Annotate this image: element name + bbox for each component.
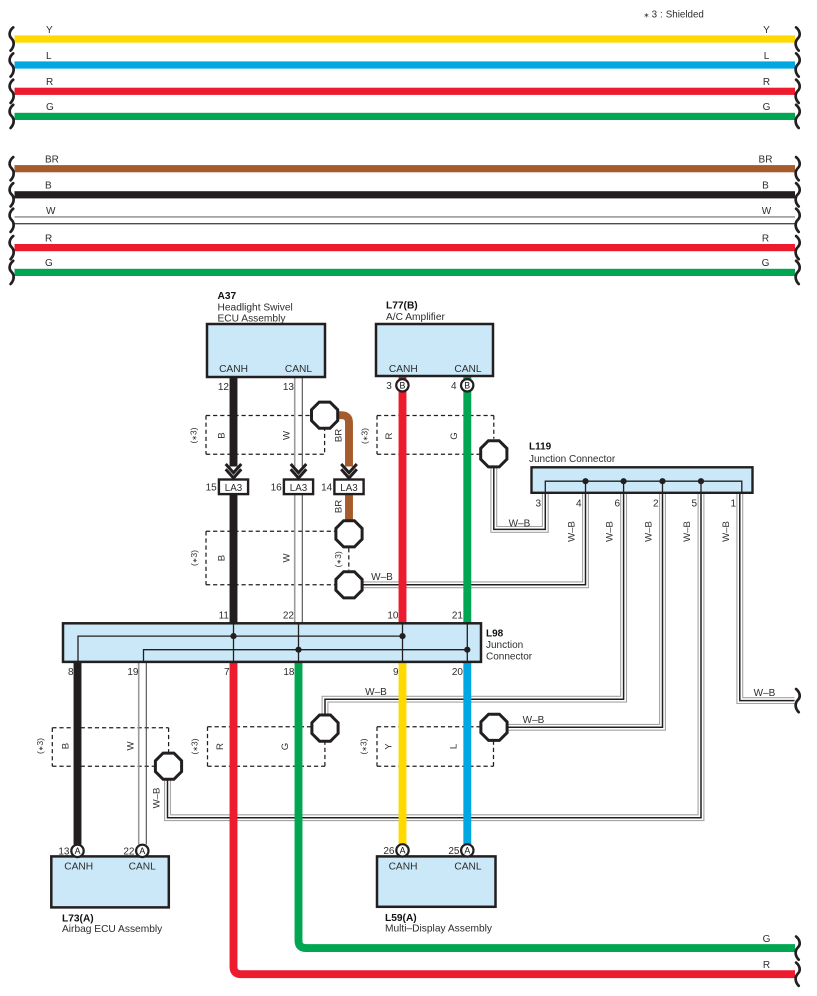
- continuation mark right of R: [796, 80, 800, 103]
- svg-text:B: B: [217, 432, 228, 438]
- svg-text:11: 11: [219, 611, 230, 622]
- svg-text:18: 18: [283, 667, 295, 678]
- svg-text:CANH: CANH: [389, 364, 418, 375]
- svg-text:W–B: W–B: [682, 521, 693, 542]
- wire G (horizontal trunk): [15, 113, 796, 120]
- svg-text:W–B: W–B: [371, 572, 393, 583]
- svg-text:A: A: [464, 846, 470, 856]
- svg-text:14: 14: [321, 483, 333, 494]
- svg-text:W–B: W–B: [605, 521, 616, 542]
- wire W-B from L119 pin 1 to right edge: [740, 493, 795, 701]
- wire R (horizontal trunk): [15, 88, 796, 95]
- continuation mark right of G: [796, 261, 800, 284]
- svg-text:L: L: [764, 51, 770, 62]
- svg-text:G: G: [46, 102, 54, 113]
- wire R from L98 pin 7 to right edge: [234, 662, 796, 974]
- svg-text:G: G: [449, 432, 460, 439]
- svg-text:L59(A): L59(A): [385, 913, 417, 924]
- svg-text:(∗3): (∗3): [360, 428, 370, 444]
- continuation mark right of R: [796, 236, 800, 259]
- svg-text:L98: L98: [486, 629, 504, 640]
- junction node L119 pin 5: [698, 478, 704, 484]
- svg-text:Multi–Display Assembly: Multi–Display Assembly: [385, 923, 493, 934]
- svg-text:R: R: [45, 233, 52, 244]
- svg-text:G: G: [762, 258, 770, 269]
- pin 4 connector circle B of L77: [461, 379, 473, 391]
- wire B from L98 pin 8 to L73 pin 13: [74, 662, 82, 845]
- wire W from A37 CANL pin 13 to joint LA3-16: [295, 377, 303, 467]
- svg-text:LA3: LA3: [340, 483, 358, 494]
- svg-text:(∗3): (∗3): [333, 551, 343, 567]
- svg-text:16: 16: [271, 483, 283, 494]
- wire W from L98 pin 19 to L73 pin 22: [139, 662, 147, 845]
- shield box labels (*3) Y L: [359, 738, 460, 754]
- svg-text:Y: Y: [384, 743, 395, 750]
- svg-text:G: G: [763, 934, 771, 945]
- continuation mark left of L: [10, 53, 14, 76]
- ECU A37 Headlight Swivel ECU Assembly: [207, 291, 325, 393]
- svg-text:∗3:Shielded: ∗3:Shielded: [644, 10, 704, 21]
- ECU L73(A) Airbag ECU Assembly: [51, 846, 169, 935]
- svg-text:R: R: [762, 233, 769, 244]
- svg-text:L73(A): L73(A): [62, 913, 94, 924]
- svg-text:L119: L119: [529, 441, 552, 452]
- shield box labels (*3) B W: [189, 427, 293, 443]
- svg-text:W: W: [762, 206, 772, 217]
- svg-text:1: 1: [730, 498, 736, 509]
- continuation mark left of R: [10, 236, 14, 259]
- svg-text:6: 6: [614, 498, 620, 509]
- continuation mark left of W: [10, 209, 14, 232]
- junction node L98 pin 10/9: [399, 633, 405, 639]
- junction node L119 pin 2: [659, 478, 665, 484]
- svg-text:7: 7: [224, 667, 230, 678]
- shield box labels (*3) R G: [360, 428, 461, 444]
- svg-text:CANL: CANL: [454, 364, 482, 375]
- wire W-B from L73 shield octagon to L119 pin 5: [168, 493, 702, 818]
- junction node L98 pin 22/18: [295, 647, 301, 653]
- pin 22 connector circle A of L73: [136, 845, 148, 857]
- connector joint LA3 pin 15: [206, 480, 249, 495]
- junction node L119 pin 6: [621, 478, 627, 484]
- L119 pin numbers: [535, 498, 736, 509]
- svg-text:3: 3: [386, 381, 392, 392]
- continuation mark left of G: [10, 105, 14, 128]
- wire BR (horizontal trunk, lower group): [15, 165, 796, 172]
- wire R (horizontal trunk, lower group): [15, 244, 796, 251]
- svg-text:4: 4: [451, 381, 457, 392]
- continuation mark right of B: [796, 183, 800, 206]
- shield box labels (*3) R G: [190, 738, 292, 754]
- svg-text:Y: Y: [763, 25, 770, 36]
- svg-text:Junction: Junction: [486, 640, 523, 651]
- svg-text:B: B: [399, 381, 405, 391]
- wire L (horizontal trunk): [15, 61, 796, 68]
- wire W-B from A37 shield octagon to L119 pin 4: [361, 493, 586, 585]
- continuation mark left of BR: [10, 157, 14, 180]
- svg-text:CANL: CANL: [285, 364, 313, 375]
- shield box (*3) around L77 wires R,G: [377, 416, 494, 455]
- L98 labels: [486, 629, 533, 663]
- svg-text:BR: BR: [45, 155, 59, 166]
- svg-text:W: W: [46, 206, 56, 217]
- junction connector L119: [532, 467, 753, 493]
- svg-text:W–B: W–B: [754, 688, 776, 699]
- svg-text:W–B: W–B: [365, 687, 387, 698]
- wire W-B from R/G shield octagon to L119 pin 6: [325, 493, 624, 717]
- svg-text:Connector: Connector: [486, 652, 533, 663]
- svg-text:12: 12: [218, 382, 230, 393]
- svg-text:(∗3): (∗3): [35, 738, 45, 754]
- wire Y from L98 pin 9 to L59 pin 26: [399, 662, 407, 844]
- wire W-B from L77 shield octagon to L119 pin 3: [494, 466, 546, 529]
- svg-text:BR: BR: [334, 500, 345, 513]
- continuation mark right of W-B: [796, 689, 800, 712]
- wire B from A37 CANH pin 12 to joint LA3-15: [230, 377, 238, 467]
- junction node L98 pin 11/7: [230, 633, 236, 639]
- shield octagon (R/G trunk cable): [312, 715, 338, 741]
- svg-text:A: A: [400, 846, 406, 856]
- wire W-B from Y/L shield octagon to L119 pin 2: [507, 493, 663, 728]
- L119 labels: [529, 441, 616, 465]
- svg-text:Y: Y: [46, 25, 53, 36]
- continuation mark left of B: [10, 183, 14, 206]
- ECU L59(A) Multi-Display Assembly: [377, 846, 496, 935]
- svg-text:BR: BR: [759, 155, 773, 166]
- shield octagon (A37 cable, lower): [336, 572, 362, 598]
- shield link dashes between octagons: [348, 548, 350, 570]
- svg-text:B: B: [45, 181, 52, 192]
- svg-text:LA3: LA3: [225, 483, 243, 494]
- svg-text:R: R: [763, 960, 770, 971]
- connector joint LA3 pin 14: [321, 480, 364, 495]
- shield box labels (*3) B W (L73): [35, 738, 137, 754]
- svg-text:CANH: CANH: [64, 862, 93, 873]
- ECU L77(B) A/C Amplifier: [376, 301, 493, 393]
- svg-text:(∗3): (∗3): [359, 738, 369, 754]
- wire B (horizontal trunk, lower group): [15, 191, 796, 198]
- svg-text:W–B: W–B: [644, 521, 655, 542]
- svg-text:3: 3: [535, 498, 541, 509]
- shield box labels (*3) B W (lower): [189, 550, 293, 566]
- svg-text:R: R: [384, 432, 395, 439]
- continuation mark right of G: [796, 105, 800, 128]
- pin 25 connector circle A of L59: [461, 844, 473, 856]
- svg-text:R: R: [215, 743, 226, 750]
- svg-text:R: R: [46, 77, 53, 88]
- wire W (horizontal trunk, lower group): [15, 217, 796, 224]
- L98 pin numbers top: [219, 611, 464, 622]
- svg-text:A: A: [75, 846, 81, 856]
- continuation mark right of bottom R: [796, 963, 800, 986]
- junction connector L98: [63, 623, 481, 662]
- svg-text:15: 15: [206, 483, 218, 494]
- pin 3 connector circle B of L77: [396, 379, 408, 391]
- wire L from L98 pin 20 to L59 pin 25: [463, 662, 471, 844]
- shield octagon (L77 cable): [481, 441, 507, 467]
- svg-text:G: G: [763, 102, 771, 113]
- svg-text:A37: A37: [218, 291, 237, 302]
- labels W-B rotated under L119: [567, 521, 733, 542]
- svg-text:22: 22: [123, 846, 135, 857]
- svg-text:G: G: [45, 258, 53, 269]
- svg-text:Airbag ECU Assembly: Airbag ECU Assembly: [62, 924, 163, 935]
- pin 13 connector circle A of L73: [71, 845, 83, 857]
- svg-text:13: 13: [283, 382, 295, 393]
- svg-text:Headlight Swivel: Headlight Swivel: [218, 303, 293, 314]
- shield box (*3) around R,G trunk wires: [208, 727, 325, 766]
- shield octagon (A37 cable, middle): [336, 521, 362, 547]
- pin 26 connector circle A of L59: [396, 844, 408, 856]
- arrow into LA3-14: [341, 464, 357, 478]
- svg-text:ECU Assembly: ECU Assembly: [218, 314, 287, 325]
- continuation mark left of Y: [10, 27, 14, 50]
- svg-text:W–B: W–B: [721, 521, 732, 542]
- svg-text:13: 13: [58, 846, 70, 857]
- svg-text:9: 9: [393, 667, 399, 678]
- svg-text:W–B: W–B: [509, 518, 531, 529]
- svg-text:W–B: W–B: [567, 521, 578, 542]
- continuation mark right of L: [796, 53, 800, 76]
- svg-text:21: 21: [452, 611, 464, 622]
- wire G (horizontal trunk, lower group): [15, 269, 796, 276]
- wire W from joint LA3-16 to L98 pin 22: [295, 494, 303, 623]
- shield octagon (A37 cable, upper): [312, 402, 338, 428]
- svg-text:B: B: [464, 381, 470, 391]
- svg-text:W: W: [126, 741, 137, 751]
- shield box (*3) lower A37 cable B,W: [206, 531, 335, 585]
- svg-text:A: A: [139, 846, 145, 856]
- svg-text:CANL: CANL: [454, 862, 482, 873]
- continuation mark right of BR: [796, 157, 800, 180]
- wire R from L77 CANH pin 3 to L98 pin 10: [399, 377, 407, 624]
- shield octagon (L73 cable): [155, 753, 181, 779]
- L98 pin numbers bottom: [68, 667, 463, 678]
- svg-text:B: B: [217, 555, 228, 561]
- svg-text:(∗3): (∗3): [189, 550, 199, 566]
- svg-text:8: 8: [68, 667, 74, 678]
- junction node L98 pin 21/20: [464, 647, 470, 653]
- arrow into LA3-16: [291, 464, 307, 478]
- junction node L119 pin 4: [582, 478, 588, 484]
- svg-text:5: 5: [691, 498, 697, 509]
- continuation mark right of W: [796, 209, 800, 232]
- svg-text:L: L: [46, 51, 52, 62]
- svg-text:22: 22: [283, 611, 295, 622]
- svg-text:G: G: [280, 743, 291, 750]
- svg-text:BR: BR: [334, 429, 345, 442]
- svg-text:B: B: [61, 743, 72, 749]
- svg-text:R: R: [763, 77, 770, 88]
- svg-text:CANH: CANH: [389, 862, 418, 873]
- svg-text:26: 26: [383, 846, 395, 857]
- svg-text:(∗3): (∗3): [190, 738, 200, 754]
- svg-text:LA3: LA3: [290, 483, 308, 494]
- wire B from joint LA3-15 to L98 pin 11: [230, 494, 238, 623]
- svg-text:W: W: [282, 430, 293, 440]
- svg-text:A/C Amplifier: A/C Amplifier: [386, 312, 445, 323]
- svg-text:20: 20: [452, 667, 464, 678]
- svg-text:4: 4: [576, 498, 582, 509]
- svg-text:W–B: W–B: [523, 715, 545, 726]
- svg-text:19: 19: [127, 667, 139, 678]
- connector joint LA3 pin 16: [271, 480, 314, 495]
- wire G from L77 CANL pin 4 to L98 pin 21: [463, 377, 471, 624]
- svg-text:10: 10: [387, 611, 399, 622]
- arrow into LA3-15: [226, 464, 242, 478]
- shield box (*3) around L73 wires B,W: [52, 728, 168, 766]
- svg-text:L: L: [449, 743, 460, 749]
- wire BR from joint LA3-14 to shield octagon: [345, 494, 353, 520]
- svg-text:W: W: [282, 553, 293, 563]
- svg-text:2: 2: [653, 498, 659, 509]
- svg-text:Junction Connector: Junction Connector: [529, 454, 616, 465]
- wire Y (horizontal trunk): [15, 35, 796, 42]
- svg-text:(∗3): (∗3): [189, 427, 199, 443]
- continuation mark left of G: [10, 261, 14, 284]
- svg-text:CANH: CANH: [219, 364, 248, 375]
- continuation mark right of Y: [796, 27, 800, 50]
- svg-text:CANL: CANL: [129, 862, 157, 873]
- svg-text:25: 25: [448, 846, 460, 857]
- shield box (*3) around L59 wires Y,L: [377, 727, 494, 766]
- wire BR from shield octagon to joint LA3-14: [335, 415, 349, 466]
- continuation mark right of bottom G: [796, 937, 800, 960]
- wire G from L98 pin 18 to right edge: [299, 662, 796, 948]
- shield box (*3) around A37 wires B,W: [206, 416, 325, 455]
- continuation mark left of R: [10, 80, 14, 103]
- svg-text:L77(B): L77(B): [386, 301, 418, 312]
- shield octagon (L59 cable): [481, 714, 507, 740]
- svg-text:B: B: [762, 181, 769, 192]
- svg-text:W–B: W–B: [152, 788, 163, 809]
